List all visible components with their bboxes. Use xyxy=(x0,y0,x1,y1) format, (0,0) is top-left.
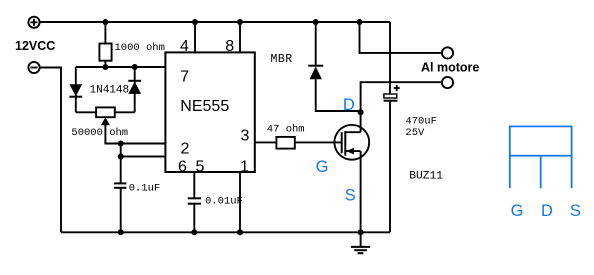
wire pin 7 node (discharge) xyxy=(76,66,166,68)
junction source at bottom rail xyxy=(358,229,364,235)
junction top rail at resistor 1000 ohm xyxy=(102,19,108,25)
wire pot wiper to pin 2 xyxy=(105,124,165,144)
wire drain up to node D xyxy=(360,112,362,132)
wire pin 3 output to gate xyxy=(255,141,342,143)
svg-text:S: S xyxy=(345,187,356,205)
terminal Al motore 1 xyxy=(442,47,453,58)
svg-text:BUZ11: BUZ11 xyxy=(409,171,443,183)
junction top rail at motor branch xyxy=(357,19,363,25)
svg-text:3: 3 xyxy=(241,128,250,145)
capacitor C1 0.1uF xyxy=(114,183,126,232)
svg-text:470uF: 470uF xyxy=(405,116,437,128)
svg-text:5: 5 xyxy=(196,158,205,175)
junction top rail at pin 4 xyxy=(192,19,198,25)
wire top +12V rail xyxy=(40,21,390,23)
wire pin 1 to bottom rail xyxy=(239,173,241,233)
capacitor C3 470uF electrolytic xyxy=(384,22,400,232)
junction bottom rail at pin1 xyxy=(237,229,243,235)
svg-text:7: 7 xyxy=(180,68,189,85)
junction pin7 node at resistor bottom xyxy=(102,64,108,70)
resistor 1000 ohm xyxy=(99,22,111,67)
svg-text:NE555: NE555 xyxy=(180,98,229,115)
svg-text:6: 6 xyxy=(178,158,187,175)
diode D2 1N4148 (right, cathode up) xyxy=(128,67,141,112)
junction top rail at pin 8 xyxy=(237,19,243,25)
wire junction branch down to 0.1uF xyxy=(120,144,122,184)
junction pin7 node at right diode xyxy=(132,64,138,70)
wire pin 5 down xyxy=(193,173,195,199)
wire negative input to bottom rail xyxy=(40,68,61,233)
svg-text:Al motore: Al motore xyxy=(421,61,479,75)
capacitor C2 0.01uF xyxy=(188,198,201,232)
terminal minus (negative supply input) xyxy=(28,62,39,73)
svg-text:8: 8 xyxy=(225,38,234,55)
svg-text:47 ohm: 47 ohm xyxy=(267,124,305,136)
wire motor terminal 1 xyxy=(360,22,442,53)
diode D3 MBR flyback (cathode up) xyxy=(308,22,360,111)
ground xyxy=(351,232,370,253)
wire motor terminal 2 xyxy=(361,82,442,112)
IC U1 NE555 body xyxy=(165,52,254,172)
junction wiper wire xyxy=(118,141,124,147)
svg-text:1N4148: 1N4148 xyxy=(90,84,130,96)
wire bottom 0V rail xyxy=(61,231,390,233)
svg-text:4: 4 xyxy=(180,38,189,55)
svg-text:12VCC: 12VCC xyxy=(15,39,55,53)
svg-text:0.1uF: 0.1uF xyxy=(129,183,161,195)
junction drain node D xyxy=(358,109,364,115)
terminal Al motore 2 xyxy=(442,77,453,88)
svg-text:S: S xyxy=(570,202,581,220)
potentiometer 50000 ohm xyxy=(76,107,135,125)
svg-text:50000 ohm: 50000 ohm xyxy=(71,127,128,139)
terminal plus (positive supply input) xyxy=(28,17,39,28)
wire pin 6 xyxy=(121,156,166,158)
svg-text:MBR: MBR xyxy=(271,53,293,66)
svg-text:2: 2 xyxy=(181,141,190,158)
wire pin 4 to rail xyxy=(194,22,196,53)
svg-text:25V: 25V xyxy=(405,127,425,139)
BUZ11 package pinout diagram (blue) xyxy=(510,126,572,188)
svg-text:0.01uF: 0.01uF xyxy=(205,195,243,207)
svg-text:G: G xyxy=(316,158,329,176)
svg-text:1: 1 xyxy=(240,158,249,175)
junction bottom rail at pin5 xyxy=(191,229,197,235)
junction pin6 wire xyxy=(118,154,124,160)
junction top rail at MBR diode xyxy=(313,19,319,25)
svg-text:G: G xyxy=(511,202,524,220)
wire pin 8 to rail xyxy=(239,22,241,53)
junction bottom rail at 0.1uF xyxy=(118,229,124,235)
svg-text:1000 ohm: 1000 ohm xyxy=(115,42,165,54)
transistor Q1 BUZ11 N-MOSFET xyxy=(334,125,369,160)
svg-text:D: D xyxy=(541,202,553,220)
wire source down to bottom rail xyxy=(360,151,362,232)
diode D1 1N4148 (left, cathode down) xyxy=(69,67,82,112)
resistor 47 ohm xyxy=(276,137,294,149)
